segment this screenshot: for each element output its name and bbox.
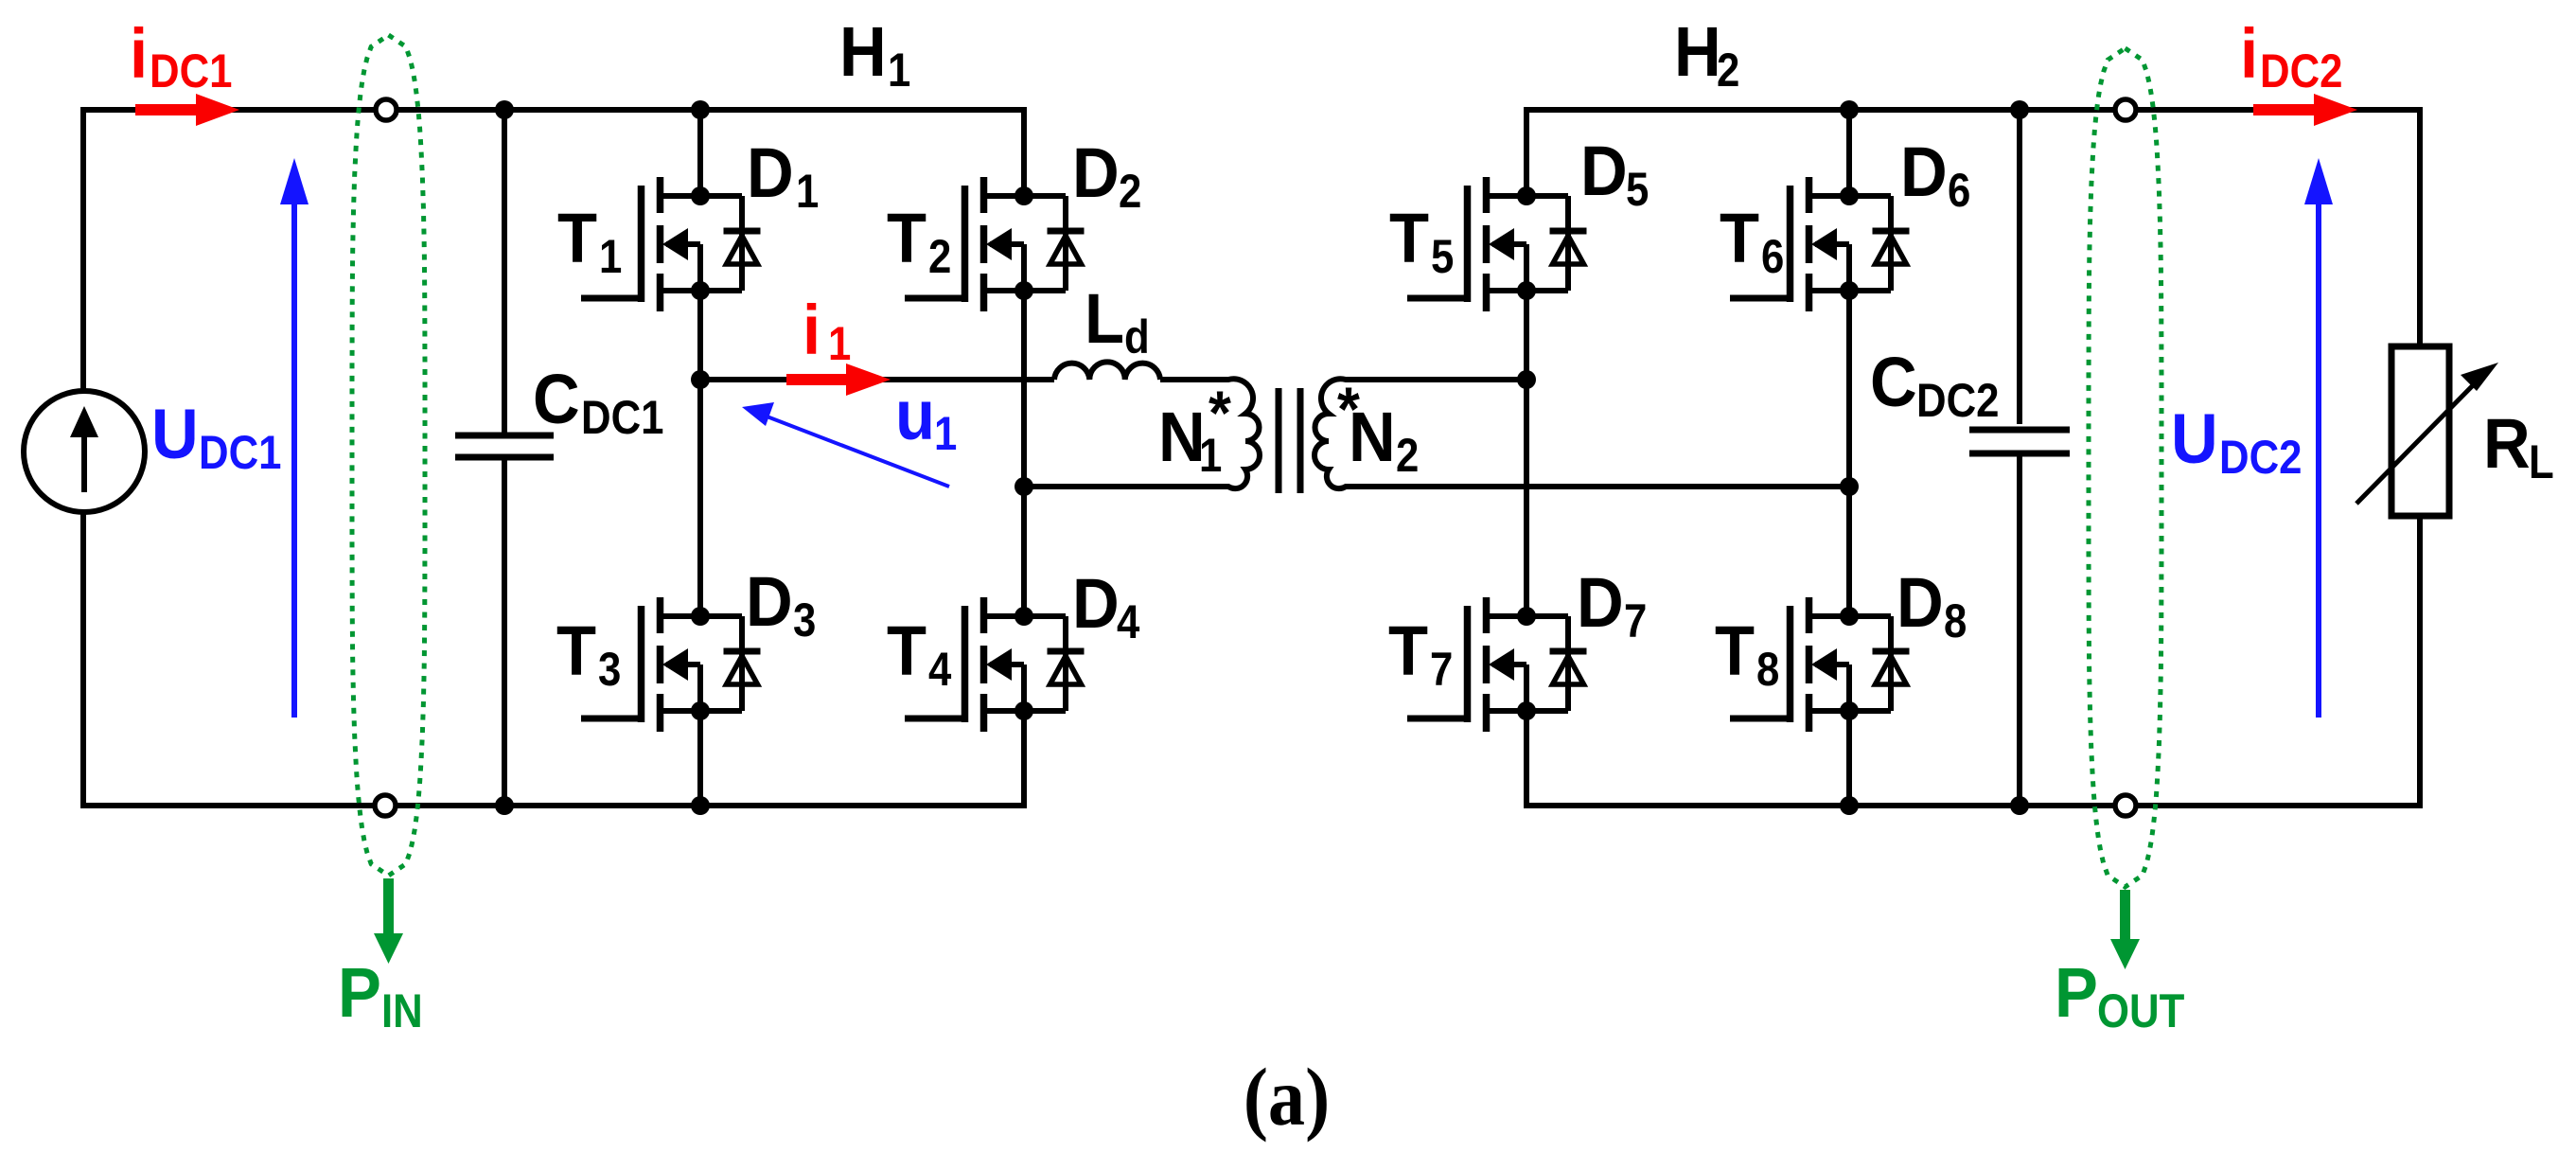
transistor T7	[1407, 597, 1587, 732]
svg-text:2: 2	[1396, 428, 1419, 481]
svg-text:D: D	[747, 134, 794, 213]
svg-text:i: i	[2240, 15, 2258, 94]
wire: T1 leg from bus	[697, 110, 703, 196]
transistor T2	[905, 177, 1085, 311]
svg-text:R: R	[2483, 405, 2531, 484]
svg-text:D: D	[1072, 134, 1120, 213]
measurement loop PIN	[352, 35, 425, 876]
wire: T1-T3 leg mid	[697, 291, 703, 616]
svg-text:C: C	[533, 361, 580, 439]
svg-text:8: 8	[1944, 594, 1967, 647]
transformer secondary N2	[1314, 379, 1849, 488]
transistor T5	[1407, 177, 1587, 311]
svg-text:L: L	[2529, 434, 2554, 487]
measurement loop POUT	[2089, 48, 2161, 887]
svg-text:T: T	[1720, 200, 1759, 278]
wire: H2 bottom bus	[1524, 803, 2423, 808]
svg-text:T: T	[887, 200, 926, 278]
svg-text:8: 8	[1756, 642, 1779, 695]
svg-text:IN: IN	[381, 984, 423, 1037]
svg-text:5: 5	[1431, 229, 1454, 282]
wire: T7 leg to bus	[1524, 711, 1529, 806]
wire: right rail bottom	[2417, 516, 2423, 806]
svg-text:1: 1	[828, 316, 851, 369]
svg-text:OUT: OUT	[2097, 984, 2185, 1037]
arrow UDC1	[291, 202, 297, 718]
svg-text:2: 2	[1717, 43, 1739, 96]
transistor T4	[905, 597, 1085, 732]
svg-text:3: 3	[598, 642, 621, 695]
node dot	[2010, 100, 2029, 119]
transistor T1	[581, 177, 761, 311]
wire: right rail top	[2417, 110, 2423, 346]
svg-text:d: d	[1124, 310, 1150, 363]
svg-text:D: D	[1580, 133, 1628, 211]
svg-text:T: T	[887, 612, 926, 691]
svg-text:T: T	[1388, 612, 1428, 691]
wire: CDC2 top lead	[2017, 110, 2022, 424]
node dot	[1015, 477, 1033, 496]
svg-text:DC2: DC2	[2219, 430, 2303, 483]
wire: T3 leg to bus	[697, 711, 703, 806]
svg-text:T: T	[1715, 612, 1755, 691]
wire: CDC1 bottom lead	[502, 460, 507, 806]
transistor T8	[1730, 597, 1910, 732]
terminal node	[2115, 99, 2136, 120]
terminal node	[376, 99, 397, 120]
svg-text:7: 7	[1430, 642, 1453, 695]
wire: T2-T4 leg mid	[1021, 291, 1027, 616]
svg-text:H: H	[839, 13, 887, 92]
terminal node	[375, 795, 396, 816]
svg-text:4: 4	[928, 642, 951, 695]
svg-text:u: u	[895, 377, 935, 455]
node dot	[1840, 100, 1859, 119]
svg-text:DC2: DC2	[2260, 44, 2343, 97]
inductor Ld	[1054, 362, 1160, 380]
node dot	[691, 370, 710, 389]
svg-text:U: U	[151, 396, 199, 474]
current source UDC1	[24, 391, 145, 512]
wire: T6 leg from bus	[1846, 110, 1852, 196]
svg-text:i: i	[803, 292, 820, 370]
transistor T6	[1730, 177, 1910, 311]
svg-text:4: 4	[1117, 594, 1139, 647]
svg-text:L: L	[1085, 280, 1124, 359]
wire: T5 leg from bus	[1524, 110, 1529, 196]
capacitor CDC2	[1969, 430, 2070, 453]
transformer primary N1	[1024, 379, 1260, 488]
svg-text:T: T	[557, 200, 597, 278]
svg-text:D: D	[1072, 565, 1120, 644]
wire: T6-T8 leg mid	[1846, 291, 1852, 616]
svg-text:6: 6	[1948, 163, 1970, 216]
wire: T2 leg from bus	[1021, 110, 1027, 196]
svg-text:1: 1	[888, 43, 910, 96]
transformer core	[1279, 388, 1300, 493]
svg-text:(a): (a)	[1244, 1051, 1330, 1143]
svg-text:*: *	[1337, 374, 1360, 445]
node dot	[1840, 477, 1859, 496]
wire: H1 top bus	[80, 107, 1027, 113]
arrow UDC2	[2316, 202, 2321, 718]
arrow i1	[786, 374, 849, 385]
arrow POUT	[2120, 890, 2130, 943]
svg-text:P: P	[338, 954, 381, 1033]
wire: left rail bottom	[80, 512, 86, 806]
wire: H2 top bus	[1524, 107, 2423, 113]
wire: T4 leg to bus	[1021, 711, 1027, 806]
svg-text:1: 1	[796, 164, 819, 217]
svg-text:6: 6	[1761, 229, 1784, 282]
svg-text:1: 1	[599, 229, 622, 282]
capacitor CDC1	[455, 435, 554, 457]
svg-text:D: D	[1900, 133, 1948, 212]
wire: T8 leg to bus	[1846, 711, 1852, 806]
svg-text:3: 3	[793, 593, 816, 646]
svg-text:U: U	[2171, 400, 2218, 479]
node dot	[691, 796, 710, 815]
svg-text:DC1: DC1	[199, 425, 282, 478]
svg-text:DC2: DC2	[1916, 373, 2000, 426]
wire: H1 bottom bus	[80, 803, 1027, 808]
wire: CDC2 bottom lead	[2017, 456, 2022, 806]
svg-text:1: 1	[934, 406, 957, 459]
svg-text:T: T	[1389, 200, 1429, 278]
svg-text:D: D	[746, 563, 793, 642]
terminal node	[2115, 795, 2136, 816]
svg-text:*: *	[1209, 378, 1231, 449]
arrow iDC1	[135, 104, 199, 115]
node dot	[2010, 796, 2029, 815]
node dot	[691, 100, 710, 119]
svg-text:T: T	[556, 612, 596, 691]
svg-text:DC1: DC1	[581, 390, 664, 443]
node dot	[495, 100, 514, 119]
svg-text:D: D	[1897, 564, 1944, 643]
svg-text:i: i	[130, 15, 148, 94]
node dot	[495, 796, 514, 815]
resistor RL	[2391, 346, 2449, 516]
arrow u1	[757, 413, 949, 487]
wire: i1 mid wire	[700, 377, 1054, 382]
svg-text:2: 2	[1119, 164, 1141, 217]
wire: left rail top	[80, 110, 86, 391]
svg-text:P: P	[2055, 954, 2098, 1033]
node dot	[1840, 796, 1859, 815]
svg-text:7: 7	[1624, 594, 1647, 647]
node dot	[1517, 370, 1536, 389]
svg-text:5: 5	[1626, 162, 1649, 215]
arrow PIN	[383, 878, 394, 937]
svg-text:C: C	[1870, 344, 1917, 422]
wire: T5-T7 leg mid	[1524, 291, 1529, 616]
svg-text:D: D	[1577, 564, 1624, 643]
transistor T3	[581, 597, 761, 732]
svg-text:2: 2	[928, 229, 951, 282]
wire: CDC1 top lead	[502, 110, 507, 433]
svg-text:DC1: DC1	[150, 44, 233, 97]
svg-text:H: H	[1674, 13, 1721, 92]
arrow iDC2	[2253, 104, 2317, 115]
